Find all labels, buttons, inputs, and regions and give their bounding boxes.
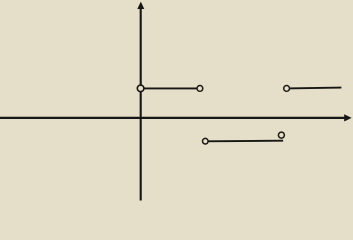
open circle C1 on y-axis: [137, 85, 144, 92]
open circle C3: [284, 86, 290, 92]
segment C: [205, 140, 283, 143]
segment A: [141, 87, 200, 89]
x-axis arrowhead: [344, 114, 351, 121]
segment B: [287, 87, 342, 90]
open circle C4: [203, 138, 209, 144]
open circle C2: [197, 86, 203, 92]
x-axis: [0, 117, 345, 119]
y-axis: [140, 8, 142, 201]
y-axis arrowhead: [137, 2, 144, 9]
open circle C5: [278, 132, 284, 138]
